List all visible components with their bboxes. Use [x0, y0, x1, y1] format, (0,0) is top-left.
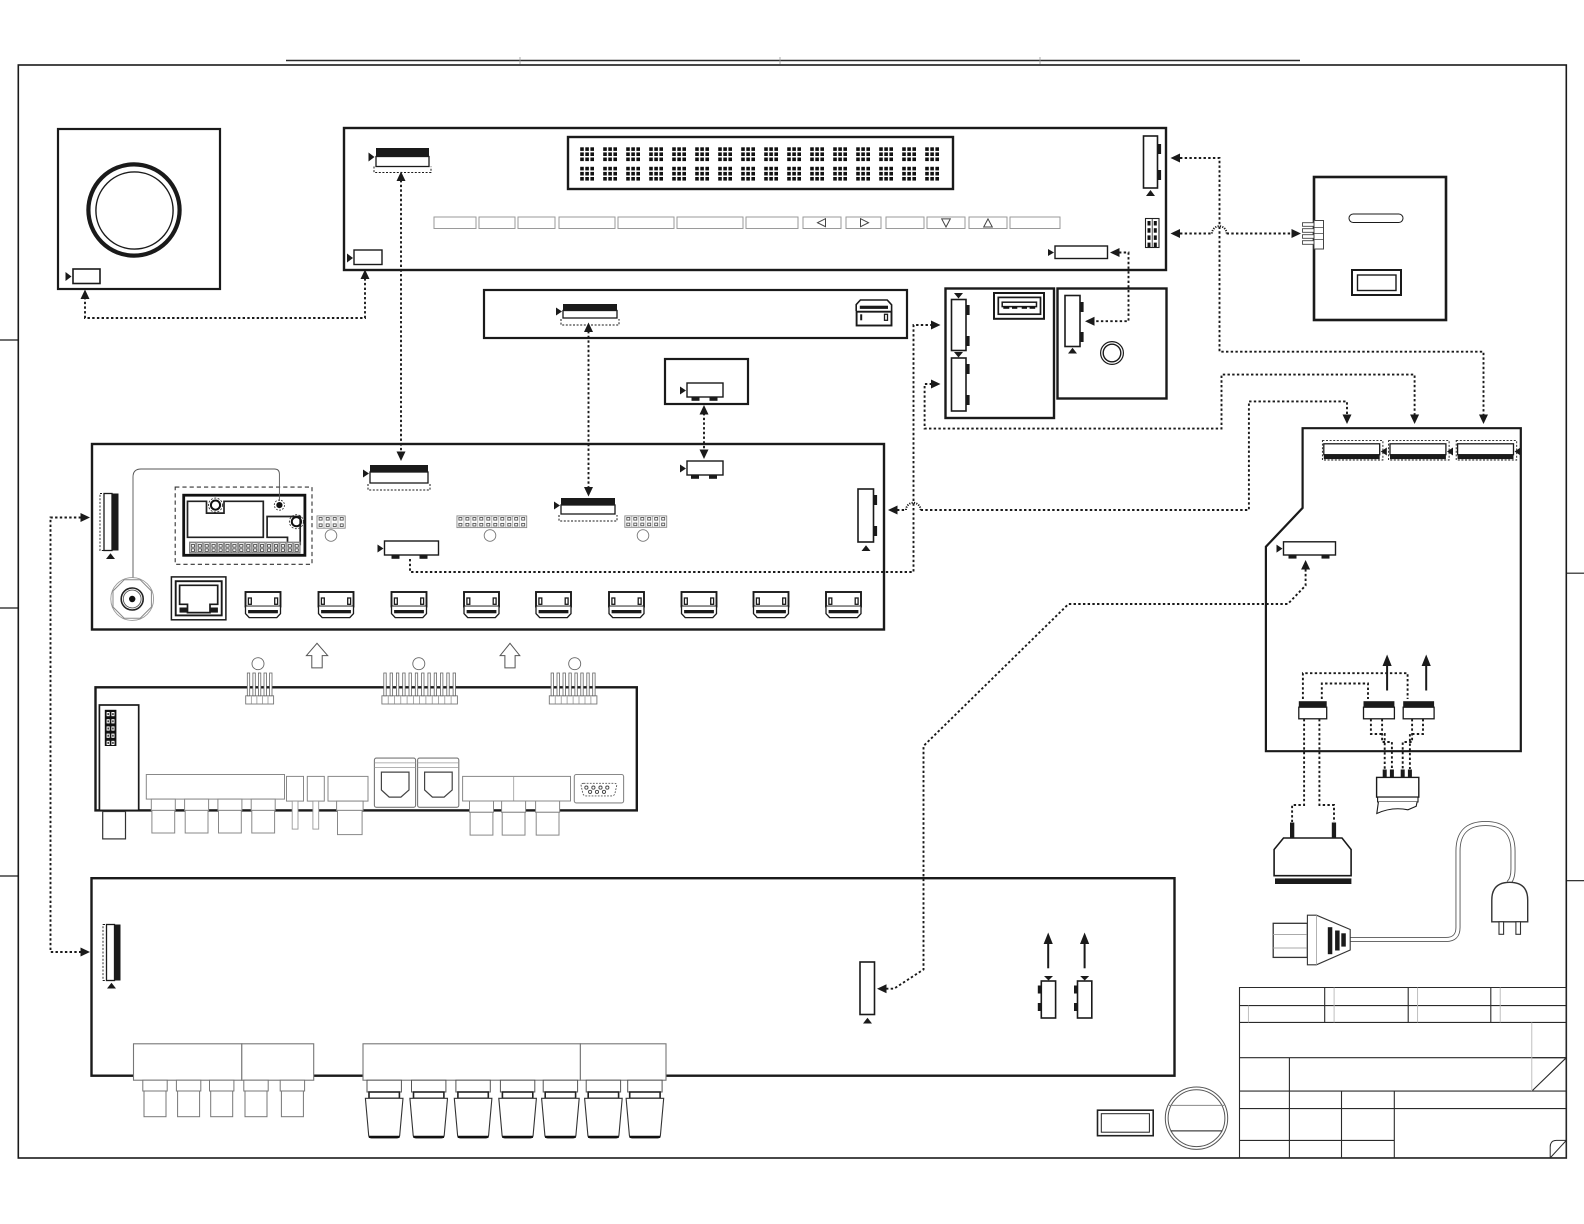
connector CN-E front panel bottom-right: [1055, 246, 1108, 259]
speaker binding post 7: [626, 1080, 664, 1138]
left fold tick 3: [0, 875, 18, 877]
preout rca jacks: [143, 1080, 305, 1117]
connector CN-S dsp board left: [103, 925, 107, 981]
wire usb CN-Q2 to amp CN-P2: [925, 375, 1415, 429]
connector CN-A front panel top-left: [376, 148, 429, 157]
rca jacks block1: [151, 799, 275, 833]
wall plug prongs: [1499, 922, 1504, 935]
analog board left sub-board: [99, 705, 138, 810]
remote battery window: [1352, 270, 1401, 295]
connector CN-U2 dsp board: [1078, 981, 1092, 1018]
amp connector CN-P1: [1322, 441, 1386, 460]
wire knob board to front panel CN-B: [85, 277, 365, 318]
connector CN-M main board (to secondary board): [561, 498, 615, 505]
hdmi port 5: [536, 592, 571, 618]
remote ir window pill: [1349, 214, 1403, 223]
volume knob outer ring: [88, 164, 179, 255]
alignment circle 1: [252, 658, 264, 670]
connector CN-H main board (to aux board): [687, 461, 723, 475]
hdmi port 7: [682, 592, 717, 618]
hollow arrow up 1: [306, 643, 327, 668]
mini jack 1: [287, 776, 304, 801]
analog board mounting foot: [103, 812, 126, 839]
remote connector pins: [1303, 223, 1315, 245]
title block folded corner mark: [1550, 1140, 1566, 1158]
front panel buttons row: [434, 217, 1060, 229]
connector CN-C front panel right vertical: [1144, 136, 1158, 188]
button glyph down: [942, 219, 951, 227]
speaker binding post 4: [499, 1080, 537, 1138]
pin header on sub-board: [105, 710, 117, 746]
pin header J3: [317, 516, 345, 541]
title block table: [1240, 988, 1567, 1158]
IR receiver icon: [856, 300, 891, 311]
toslink 2: [418, 758, 459, 807]
speaker binding post 1: [365, 1080, 403, 1138]
molded plug body: [1307, 915, 1350, 965]
wire front CN-E to headphone CN-R: [1094, 253, 1129, 322]
arrow up U1: [1047, 941, 1049, 968]
rca block 2: [463, 776, 571, 801]
wifi module screw 1: [209, 498, 223, 512]
speaker binding post 6: [585, 1080, 623, 1138]
transformer pins: [1290, 823, 1294, 839]
hdmi port 9: [826, 592, 861, 618]
wires amp CN-B / CN-C to rectifier: [1371, 719, 1423, 769]
iec inlet connector: [1273, 923, 1307, 957]
speaker binding post 3: [454, 1080, 492, 1138]
wifi module pad row: [189, 542, 300, 553]
hdmi port 8: [754, 592, 789, 618]
wire aux board to main board CN-H: [703, 413, 705, 451]
connector CN-B front panel bottom-left: [354, 250, 382, 265]
wire main CN-O to amp CN-P1: [897, 401, 1347, 510]
speaker binding post 5: [542, 1080, 580, 1138]
wifi module rf can 2: [267, 517, 300, 545]
hollow arrow up 2: [500, 643, 520, 668]
mini jack 2: [307, 776, 324, 801]
connector CN-P main board: [385, 541, 439, 555]
alignment circle 2: [413, 658, 425, 670]
approval stamp circle: [1165, 1087, 1227, 1149]
hdmi port 2: [319, 592, 354, 618]
hdmi port 1: [246, 592, 281, 618]
jumper bracket A-B: [1322, 684, 1368, 700]
connector CN-T dsp board right: [860, 962, 875, 1015]
analog input board: [96, 687, 637, 810]
button glyph right: [861, 219, 869, 227]
power amp board: [1266, 428, 1521, 751]
wires amp CN-A to transformer: [1292, 719, 1334, 822]
connector CN-L main board (to front panel): [370, 465, 428, 472]
connector CN-Q1 usb board: [952, 300, 967, 351]
secondary front board: [484, 290, 907, 338]
rectifier pins: [1383, 770, 1387, 778]
wire main CN-P to usb CN-Q1: [410, 325, 932, 572]
rca block 1: [146, 775, 284, 800]
coax antenna connector: [111, 578, 154, 621]
pin header group P1: [246, 696, 274, 704]
right fold tick 1: [1566, 572, 1584, 574]
wire main CN-I to dsp CN-S: [51, 518, 82, 953]
hdmi port 6: [609, 592, 644, 618]
speaker binding post 2: [410, 1080, 448, 1138]
amp connector CN-A bottom: [1299, 701, 1327, 707]
wire front CN-A to main CN-L: [400, 180, 402, 451]
connector CN-G aux board: [687, 383, 723, 397]
amp connector CN-P3: [1456, 441, 1520, 460]
front panel board: [344, 128, 1166, 270]
main digital board: [92, 444, 884, 630]
jumper bracket A-C: [1303, 673, 1408, 699]
pin header CN-D front panel right: [1146, 219, 1160, 248]
connector CN on knob board: [73, 269, 100, 284]
rca jacks block2: [470, 801, 560, 835]
left fold tick 1: [0, 339, 18, 341]
pin header group P3: [549, 696, 597, 704]
wire front CN-C to amp CN-P3: [1180, 158, 1484, 415]
toslink 1: [374, 758, 415, 807]
pin header group P2: [382, 696, 458, 704]
volume knob inner circle: [96, 172, 173, 249]
right fold tick 2: [1566, 880, 1584, 882]
antenna wire: [133, 469, 279, 589]
rectifier body: [1377, 777, 1419, 797]
power cord cable: [1350, 824, 1513, 940]
usb board: [946, 289, 1055, 419]
connector CN-U1 dsp board: [1041, 981, 1055, 1018]
ethernet RJ45 jack: [171, 577, 226, 620]
connector CN-R headphone board: [1065, 296, 1080, 347]
rca single: [328, 776, 368, 801]
wire board2 CN-F to main CN-M: [588, 331, 590, 487]
hdmi port 3: [392, 592, 427, 618]
wifi module screw 2: [289, 515, 303, 529]
amp connector CN-B bottom: [1364, 701, 1395, 707]
left fold tick 2: [0, 607, 18, 609]
alignment circle 3: [569, 658, 581, 670]
button glyph up: [984, 219, 993, 227]
connector CN-I main board left: [100, 494, 104, 551]
FL display window: [568, 137, 953, 189]
pin header J2: [625, 516, 667, 541]
wifi module dashed keepout: [175, 487, 312, 564]
usb type-A port: [994, 293, 1044, 319]
wire front CN-D to remote pins: [1180, 233, 1292, 235]
db9 connector: [574, 775, 623, 803]
amp connector CN-C bottom: [1403, 701, 1434, 707]
connector CN-Q2 usb board: [952, 358, 967, 411]
headphone jack: [1101, 342, 1124, 365]
preout rca block: [134, 1044, 242, 1080]
arrow up U2: [1084, 941, 1086, 968]
small aux board: [665, 359, 748, 404]
wall plug: [1492, 882, 1528, 922]
dsp/preout board: [92, 878, 1175, 1075]
transformer base bar: [1275, 878, 1351, 884]
amp connector CN-P2: [1389, 441, 1453, 460]
wifi antenna feed dot: [276, 502, 282, 508]
arrow up amp B: [1386, 664, 1388, 691]
connector CN-F secondary board: [563, 304, 617, 311]
wifi module shield area: [188, 501, 264, 537]
volume knob board: [58, 129, 220, 289]
button glyph left: [818, 219, 826, 227]
top rule line: [286, 60, 1300, 62]
headphone board: [1058, 289, 1167, 399]
rectifier curl flap: [1377, 802, 1417, 814]
plug grip bars: [1328, 927, 1333, 954]
arrow up amp C: [1425, 664, 1427, 691]
amp connector CN-M1 mid-left: [1284, 542, 1336, 555]
speaker terminal block: [363, 1044, 580, 1080]
connector CN-O main board right vertical: [858, 489, 874, 542]
wifi module body: [184, 495, 305, 555]
wire amp CN-M1 to dsp CN-T: [886, 569, 1306, 989]
hdmi port 4: [464, 592, 499, 618]
transformer body: [1274, 838, 1351, 876]
remote control unit: [1314, 177, 1446, 320]
label box: [1098, 1110, 1154, 1136]
pin header J1: [457, 516, 527, 541]
